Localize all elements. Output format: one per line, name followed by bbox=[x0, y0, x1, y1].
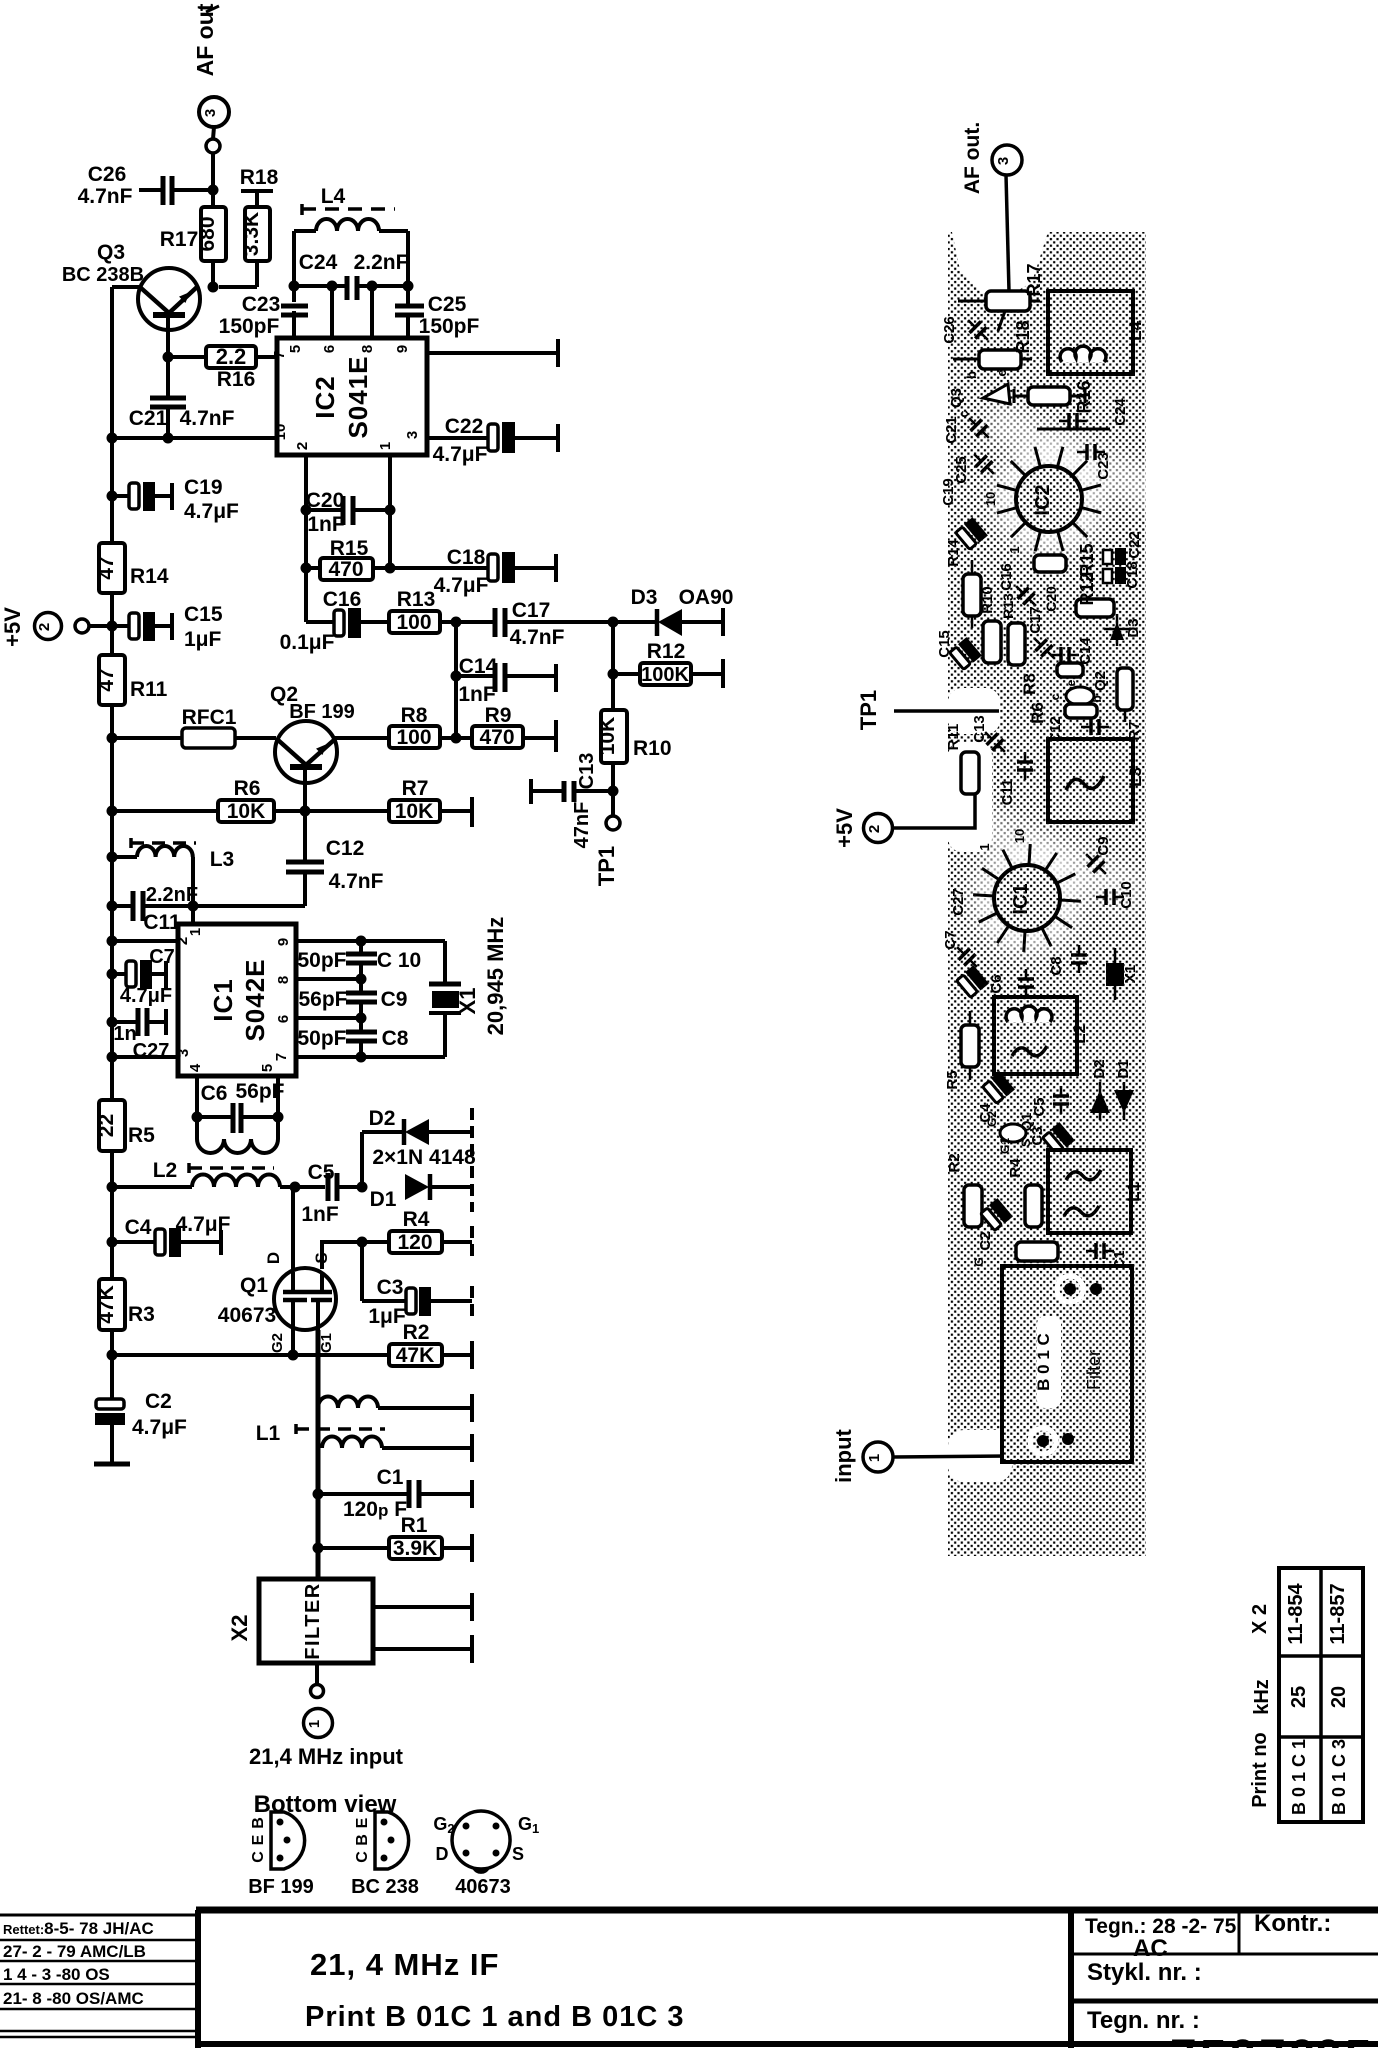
svg-text:470: 470 bbox=[328, 558, 363, 581]
wire bbox=[191, 906, 195, 924]
wire bbox=[318, 1492, 409, 1496]
node bbox=[356, 1013, 367, 1024]
svg-text:L2: L2 bbox=[1070, 1024, 1089, 1044]
svg-text:1: 1 bbox=[866, 1454, 883, 1462]
svg-text:C14: C14 bbox=[1077, 637, 1094, 665]
ground C7 bbox=[164, 961, 168, 988]
ground C15 bbox=[170, 613, 174, 640]
resistor R9 470 bbox=[456, 704, 556, 749]
svg-text:4.7nF: 4.7nF bbox=[329, 870, 384, 893]
inductor L1 bbox=[256, 1396, 472, 1448]
wire bbox=[442, 1353, 472, 1357]
node bbox=[356, 1052, 367, 1063]
resistor R15 (pcb) bbox=[1034, 543, 1097, 576]
wire bbox=[361, 620, 389, 624]
svg-text:47K: 47K bbox=[95, 1285, 118, 1324]
wire bbox=[304, 455, 308, 622]
wire bbox=[431, 1299, 472, 1303]
svg-text:25: 25 bbox=[1288, 1686, 1310, 1708]
svg-text:Kontr.:: Kontr.: bbox=[1254, 1910, 1331, 1937]
wire bbox=[274, 809, 305, 813]
IC U2 (pcb) bbox=[983, 447, 1101, 551]
ground X2b bbox=[470, 1635, 474, 1663]
node bbox=[300, 806, 311, 817]
wire bbox=[611, 622, 615, 674]
wire bbox=[303, 872, 307, 906]
svg-text:D: D bbox=[436, 1844, 449, 1864]
wire bbox=[112, 736, 182, 740]
svg-text:C11: C11 bbox=[143, 911, 181, 934]
wire bbox=[315, 1663, 319, 1684]
wire bbox=[611, 674, 615, 710]
svg-text:R7: R7 bbox=[402, 777, 429, 800]
svg-text:3: 3 bbox=[202, 109, 219, 117]
wire R2 row bbox=[112, 1353, 389, 1357]
capacitor C18 4.7uF bbox=[390, 546, 556, 597]
IC U1 S042E bbox=[178, 924, 296, 1076]
resistor R10 10K bbox=[596, 710, 672, 763]
svg-text:BC 238B: BC 238B bbox=[62, 264, 144, 286]
resistor R15 470 bbox=[306, 537, 390, 581]
capacitor C15 1uF bbox=[112, 603, 223, 651]
ground C1 bbox=[470, 1480, 474, 1508]
svg-text:C16: C16 bbox=[998, 563, 1015, 591]
diode D3 (pcb) bbox=[1104, 614, 1142, 646]
svg-text:C3: C3 bbox=[1029, 1126, 1046, 1145]
crystal X1 20.945MHz bbox=[429, 917, 508, 1036]
connector 1 input (pcb) bbox=[831, 1428, 893, 1482]
svg-text:R12: R12 bbox=[647, 640, 686, 663]
capacitor C11 2.2nF bbox=[112, 884, 198, 934]
svg-text:D3: D3 bbox=[1125, 618, 1142, 637]
wire bbox=[303, 811, 307, 860]
svg-text:C17: C17 bbox=[512, 599, 551, 622]
svg-text:C24: C24 bbox=[1112, 398, 1129, 426]
wire C24 lead bbox=[1037, 428, 1110, 431]
svg-text:20: 20 bbox=[1328, 1686, 1350, 1708]
capacitor C4 4.7uF bbox=[112, 1213, 231, 1257]
svg-text:4.7nF: 4.7nF bbox=[180, 407, 235, 430]
svg-text:2: 2 bbox=[294, 442, 311, 450]
ground C4 bbox=[219, 1230, 223, 1255]
svg-text:R11: R11 bbox=[130, 678, 168, 701]
svg-text:R10: R10 bbox=[979, 586, 996, 614]
wire bbox=[611, 763, 615, 791]
node bbox=[608, 786, 619, 797]
svg-text:C15: C15 bbox=[936, 630, 953, 658]
wire bbox=[211, 261, 215, 287]
wire main bus bbox=[110, 287, 114, 543]
capacitor C15 (pcb) bbox=[949, 637, 982, 670]
svg-text:1: 1 bbox=[977, 843, 992, 850]
capacitor C18 (pcb) bbox=[1103, 561, 1141, 589]
svg-text:C27: C27 bbox=[950, 888, 967, 916]
svg-text:G2: G2 bbox=[269, 1333, 286, 1353]
svg-text:c: c bbox=[1048, 693, 1062, 700]
wire bbox=[112, 939, 178, 943]
wire bbox=[613, 672, 640, 676]
svg-text:OA90: OA90 bbox=[679, 586, 734, 609]
svg-text:X1: X1 bbox=[1122, 965, 1139, 983]
svg-text:D2: D2 bbox=[369, 1107, 396, 1130]
pcb white cutouts bbox=[952, 232, 1048, 293]
svg-text:IC1: IC1 bbox=[1010, 883, 1032, 914]
ground D2 bbox=[470, 1108, 474, 1156]
IC U1 (pcb) bbox=[973, 829, 1081, 952]
svg-text:C8: C8 bbox=[382, 1027, 409, 1050]
wire bbox=[505, 620, 613, 624]
capacitor C1 (pcb) bbox=[1086, 1243, 1128, 1270]
capacitor C5 (pcb) bbox=[1031, 1086, 1069, 1117]
svg-text:4.7nF: 4.7nF bbox=[78, 185, 133, 208]
svg-text:L4: L4 bbox=[321, 185, 346, 208]
svg-text:1nF: 1nF bbox=[301, 1203, 339, 1226]
diode D3 OA90 bbox=[613, 586, 733, 636]
capacitor C3 (pcb) bbox=[1042, 1122, 1075, 1155]
inductor L1 (pcb) bbox=[1048, 1150, 1143, 1233]
svg-text:C13: C13 bbox=[576, 753, 598, 790]
svg-text:FILTER: FILTER bbox=[302, 1582, 324, 1660]
svg-text:C10: C10 bbox=[1118, 881, 1135, 909]
svg-text:Filter: Filter bbox=[1084, 1350, 1104, 1390]
svg-text:B: B bbox=[354, 1834, 371, 1846]
inductor L3 (pcb) bbox=[1048, 739, 1145, 822]
capacitor C23 150pF bbox=[219, 293, 308, 338]
svg-text:L4: L4 bbox=[1126, 321, 1145, 341]
svg-text:IC2: IC2 bbox=[1032, 484, 1054, 515]
capacitor C20 1nF bbox=[306, 489, 390, 536]
svg-text:IC2: IC2 bbox=[310, 375, 340, 418]
svg-text:C25: C25 bbox=[428, 293, 467, 316]
node bbox=[208, 185, 219, 196]
svg-text:R9: R9 bbox=[485, 704, 512, 727]
capacitor C7 (pcb) bbox=[942, 930, 983, 972]
transistor Q2 BF199 bbox=[270, 683, 355, 811]
capacitor C22 (pcb) bbox=[1103, 531, 1143, 565]
wire AF out to R17 bbox=[1006, 175, 1009, 291]
svg-text:40673: 40673 bbox=[218, 1304, 276, 1327]
resistor R14 (pcb) bbox=[945, 539, 981, 628]
svg-text:D1: D1 bbox=[370, 1188, 397, 1211]
capacitor C22 4.7uF bbox=[427, 415, 558, 466]
wire R18 leads bbox=[953, 358, 979, 361]
capacitor C8 150pF bbox=[297, 1027, 408, 1050]
wire bbox=[334, 736, 389, 740]
ground D1 bbox=[470, 1166, 474, 1212]
svg-text:6: 6 bbox=[321, 345, 338, 353]
wire bbox=[442, 1240, 472, 1244]
svg-text:R13: R13 bbox=[1000, 593, 1016, 619]
node bbox=[107, 621, 118, 632]
node bbox=[107, 1350, 118, 1361]
svg-text:Print no: Print no bbox=[1249, 1732, 1271, 1808]
transistor Q1 40673 bbox=[218, 1252, 336, 1353]
resistor R1 (pcb) bbox=[1016, 1242, 1058, 1261]
svg-text:R18: R18 bbox=[240, 166, 279, 189]
wire bbox=[193, 904, 305, 908]
svg-text:C19: C19 bbox=[940, 478, 957, 506]
node bbox=[107, 852, 118, 863]
svg-text:C20: C20 bbox=[1043, 586, 1059, 612]
wire bbox=[322, 1242, 362, 1269]
svg-text:BF 199: BF 199 bbox=[289, 701, 355, 723]
svg-text:X 2: X 2 bbox=[1249, 1604, 1271, 1634]
capacitor C6 (pcb) bbox=[988, 969, 1034, 997]
capacitor C19 (pcb) bbox=[955, 517, 988, 550]
wire bbox=[112, 1240, 155, 1244]
wire bbox=[181, 1240, 221, 1244]
svg-text:1μF: 1μF bbox=[368, 1305, 406, 1328]
svg-text:B 0 1 C 3: B 0 1 C 3 bbox=[1329, 1739, 1349, 1815]
svg-text:C9: C9 bbox=[381, 988, 408, 1011]
svg-text:7: 7 bbox=[271, 351, 288, 359]
wire crystal branch bbox=[443, 941, 447, 982]
wire Q1 drain bbox=[291, 1187, 295, 1269]
capacitor C2 (pcb) bbox=[980, 1198, 1013, 1231]
wire bbox=[427, 436, 488, 440]
svg-text:3: 3 bbox=[404, 431, 421, 439]
pcb light streaks bbox=[968, 400, 1169, 915]
svg-text:G2: G2 bbox=[985, 1111, 999, 1127]
capacitor C7b (pcb) bbox=[956, 965, 989, 998]
wire bbox=[427, 351, 558, 355]
node bbox=[163, 433, 174, 444]
node bbox=[357, 1182, 368, 1193]
capacitor C1 120pF bbox=[313, 1466, 473, 1521]
wire bbox=[430, 1185, 472, 1189]
wire bbox=[454, 622, 458, 738]
wire bbox=[143, 904, 193, 908]
svg-text:IC1: IC1 bbox=[208, 978, 238, 1021]
capacitor C12 (pcb) bbox=[1047, 716, 1109, 744]
svg-text:C 10: C 10 bbox=[377, 949, 421, 972]
capacitor C8 (pcb) bbox=[1048, 945, 1087, 976]
resistor R12 100K bbox=[613, 640, 723, 686]
svg-text:X2: X2 bbox=[227, 1615, 252, 1642]
svg-text:2.2: 2.2 bbox=[216, 344, 247, 369]
wire bbox=[112, 904, 133, 908]
svg-text:C23: C23 bbox=[1095, 452, 1112, 480]
capacitor C23 (pcb) bbox=[1077, 444, 1112, 480]
wire bbox=[613, 620, 657, 624]
svg-text:C8: C8 bbox=[1048, 956, 1065, 975]
svg-text:8: 8 bbox=[275, 976, 292, 984]
svg-text:C7: C7 bbox=[149, 946, 175, 968]
svg-text:E: E bbox=[354, 1817, 371, 1828]
wire bbox=[110, 1425, 114, 1464]
diode D2 1N4148 bbox=[362, 1107, 472, 1187]
wire bbox=[112, 494, 129, 498]
svg-text:D: D bbox=[264, 1252, 283, 1264]
svg-text:1μF: 1μF bbox=[184, 628, 222, 651]
capacitor C6 56pF bbox=[197, 1080, 285, 1133]
capacitor C24 2.2nF bbox=[299, 251, 409, 300]
node bbox=[367, 281, 378, 292]
ground R7 bbox=[470, 797, 474, 827]
svg-text:R4: R4 bbox=[1007, 1158, 1024, 1178]
diode D2 (pcb) bbox=[1090, 1059, 1110, 1120]
print table bbox=[1249, 1568, 1363, 1822]
svg-text:R6: R6 bbox=[1028, 702, 1047, 724]
capacitor C3 1uF bbox=[362, 1242, 472, 1328]
capacitor C24 (pcb) bbox=[1059, 398, 1129, 429]
node bbox=[608, 669, 619, 680]
svg-text:C12: C12 bbox=[326, 837, 365, 860]
ground C19 bbox=[170, 483, 174, 510]
svg-text:C26: C26 bbox=[88, 163, 127, 186]
wire bbox=[89, 624, 112, 628]
svg-text:47: 47 bbox=[95, 668, 118, 691]
ground pin9 bbox=[556, 339, 560, 367]
resistor R5 (pcb) bbox=[944, 1011, 979, 1090]
inductor L2 (pcb) bbox=[994, 997, 1089, 1074]
ground R1 bbox=[470, 1534, 474, 1562]
svg-text:4.7μF: 4.7μF bbox=[120, 985, 172, 1007]
wire bbox=[515, 436, 558, 440]
testpoint TP1 bbox=[594, 791, 620, 886]
svg-text:C22: C22 bbox=[445, 415, 484, 438]
svg-text:e: e bbox=[1064, 679, 1078, 686]
svg-text:b: b bbox=[964, 371, 979, 379]
wire input to pcb bbox=[893, 1456, 1008, 1457]
svg-text:C1: C1 bbox=[377, 1466, 404, 1489]
svg-text:TP1: TP1 bbox=[856, 690, 881, 730]
svg-text:R5: R5 bbox=[944, 1070, 961, 1089]
wire bbox=[318, 1546, 389, 1550]
wire bbox=[112, 855, 137, 859]
svg-text:120p F: 120p F bbox=[343, 1498, 407, 1521]
svg-text:Q3: Q3 bbox=[97, 241, 125, 264]
svg-text:0.1μF: 0.1μF bbox=[280, 631, 335, 654]
svg-text:4: 4 bbox=[187, 1063, 204, 1072]
svg-text:E: E bbox=[250, 1834, 267, 1845]
svg-text:D3: D3 bbox=[631, 586, 658, 609]
transistor Q3 (pcb) bbox=[948, 369, 1010, 417]
choke RFC1 bbox=[112, 706, 276, 748]
node bbox=[107, 491, 118, 502]
wire bbox=[256, 355, 277, 359]
capacitor C25 (pcb) bbox=[953, 448, 1000, 483]
wire bbox=[337, 1185, 362, 1189]
resistor R8 (pcb) bbox=[1020, 663, 1083, 695]
svg-text:40673: 40673 bbox=[455, 1876, 511, 1898]
svg-text:S041E: S041E bbox=[343, 355, 373, 438]
svg-text:50pF: 50pF bbox=[297, 1027, 346, 1050]
wire bbox=[147, 1020, 166, 1024]
node bbox=[356, 936, 367, 947]
wire bbox=[112, 1055, 178, 1059]
svg-text:G1: G1 bbox=[998, 1138, 1012, 1154]
wire bbox=[213, 127, 214, 139]
ground L1b bbox=[470, 1434, 474, 1462]
svg-text:B: B bbox=[250, 1817, 267, 1829]
svg-text:B 0 1 C: B 0 1 C bbox=[1034, 1333, 1053, 1391]
resistor R3 47K bbox=[95, 1279, 155, 1330]
wire IC1 right pins bbox=[296, 939, 445, 943]
svg-text:R15: R15 bbox=[330, 537, 369, 560]
svg-text:C17: C17 bbox=[1027, 606, 1044, 634]
svg-text:AC: AC bbox=[1133, 1935, 1168, 1962]
wire bbox=[112, 972, 126, 976]
resistor R7 10K bbox=[305, 777, 472, 823]
node bbox=[290, 1182, 301, 1193]
wire L2 row bbox=[112, 1185, 192, 1189]
svg-text:Q2: Q2 bbox=[1092, 671, 1109, 691]
resistor R16 2.2 bbox=[168, 344, 277, 391]
transistor Q2 (pcb) bbox=[1048, 671, 1109, 705]
svg-text:2×1N 4148: 2×1N 4148 bbox=[372, 1146, 476, 1169]
svg-text:R17: R17 bbox=[1024, 263, 1044, 296]
transistor Q3 BC238B bbox=[62, 241, 200, 356]
node bbox=[208, 282, 219, 293]
svg-text:B 0 1 C 1: B 0 1 C 1 bbox=[1289, 1739, 1309, 1815]
wire bbox=[893, 795, 975, 828]
svg-text:47: 47 bbox=[95, 556, 118, 579]
svg-text:47K: 47K bbox=[396, 1344, 435, 1367]
svg-text:C15: C15 bbox=[184, 603, 223, 626]
wire bbox=[574, 789, 613, 793]
capacitor C16 (pcb) bbox=[998, 563, 1042, 611]
ground C13 bbox=[529, 779, 533, 804]
ground R4 bbox=[470, 1226, 474, 1258]
svg-text:+5V: +5V bbox=[0, 607, 25, 647]
resistor R5 22 bbox=[95, 1100, 155, 1151]
wire bbox=[330, 286, 334, 338]
svg-text:56pF: 56pF bbox=[298, 988, 347, 1011]
wire bbox=[112, 809, 218, 813]
connector 3 AF out (pcb) bbox=[961, 122, 1022, 194]
wire bbox=[370, 286, 374, 338]
capacitor C9 (pcb) bbox=[1080, 836, 1112, 879]
svg-text:C19: C19 bbox=[184, 476, 223, 499]
ground C14 bbox=[554, 664, 558, 692]
wire R17 leads bbox=[958, 300, 986, 303]
node bbox=[327, 281, 338, 292]
svg-text:11-854: 11-854 bbox=[1285, 1583, 1307, 1645]
svg-text:1: 1 bbox=[1007, 546, 1022, 553]
svg-text:21,4 MHz input: 21,4 MHz input bbox=[249, 1744, 404, 1769]
svg-text:G: G bbox=[972, 1257, 986, 1266]
svg-text:C2: C2 bbox=[145, 1390, 172, 1413]
svg-text:R5: R5 bbox=[128, 1124, 155, 1147]
wire bbox=[456, 674, 495, 678]
svg-text:10K: 10K bbox=[596, 717, 619, 756]
resistor R8 100 bbox=[334, 704, 456, 749]
svg-text:+5V: +5V bbox=[832, 808, 857, 848]
resistor R13 (pcb) bbox=[1000, 593, 1025, 665]
svg-text:R11: R11 bbox=[945, 724, 962, 751]
ground C27 bbox=[164, 1009, 168, 1035]
ground R12 bbox=[721, 659, 725, 688]
wire bbox=[390, 566, 488, 570]
svg-text:C5: C5 bbox=[308, 1161, 335, 1184]
ground L1a bbox=[470, 1394, 474, 1422]
svg-text:C21: C21 bbox=[129, 407, 168, 430]
resistor R16 (pcb) bbox=[1028, 380, 1094, 413]
wire bbox=[440, 620, 456, 624]
node bbox=[107, 969, 118, 980]
capacitor C9 56pF bbox=[298, 988, 407, 1011]
svg-text:X1: X1 bbox=[455, 988, 480, 1015]
node bbox=[107, 806, 118, 817]
node bbox=[107, 936, 118, 947]
capacitor C16 0.1uF bbox=[280, 588, 389, 654]
svg-text:C23: C23 bbox=[242, 293, 281, 316]
svg-text:b: b bbox=[1090, 695, 1104, 702]
svg-text:R3: R3 bbox=[128, 1303, 155, 1326]
svg-text:1nF: 1nF bbox=[458, 683, 496, 706]
wire bbox=[112, 624, 129, 628]
